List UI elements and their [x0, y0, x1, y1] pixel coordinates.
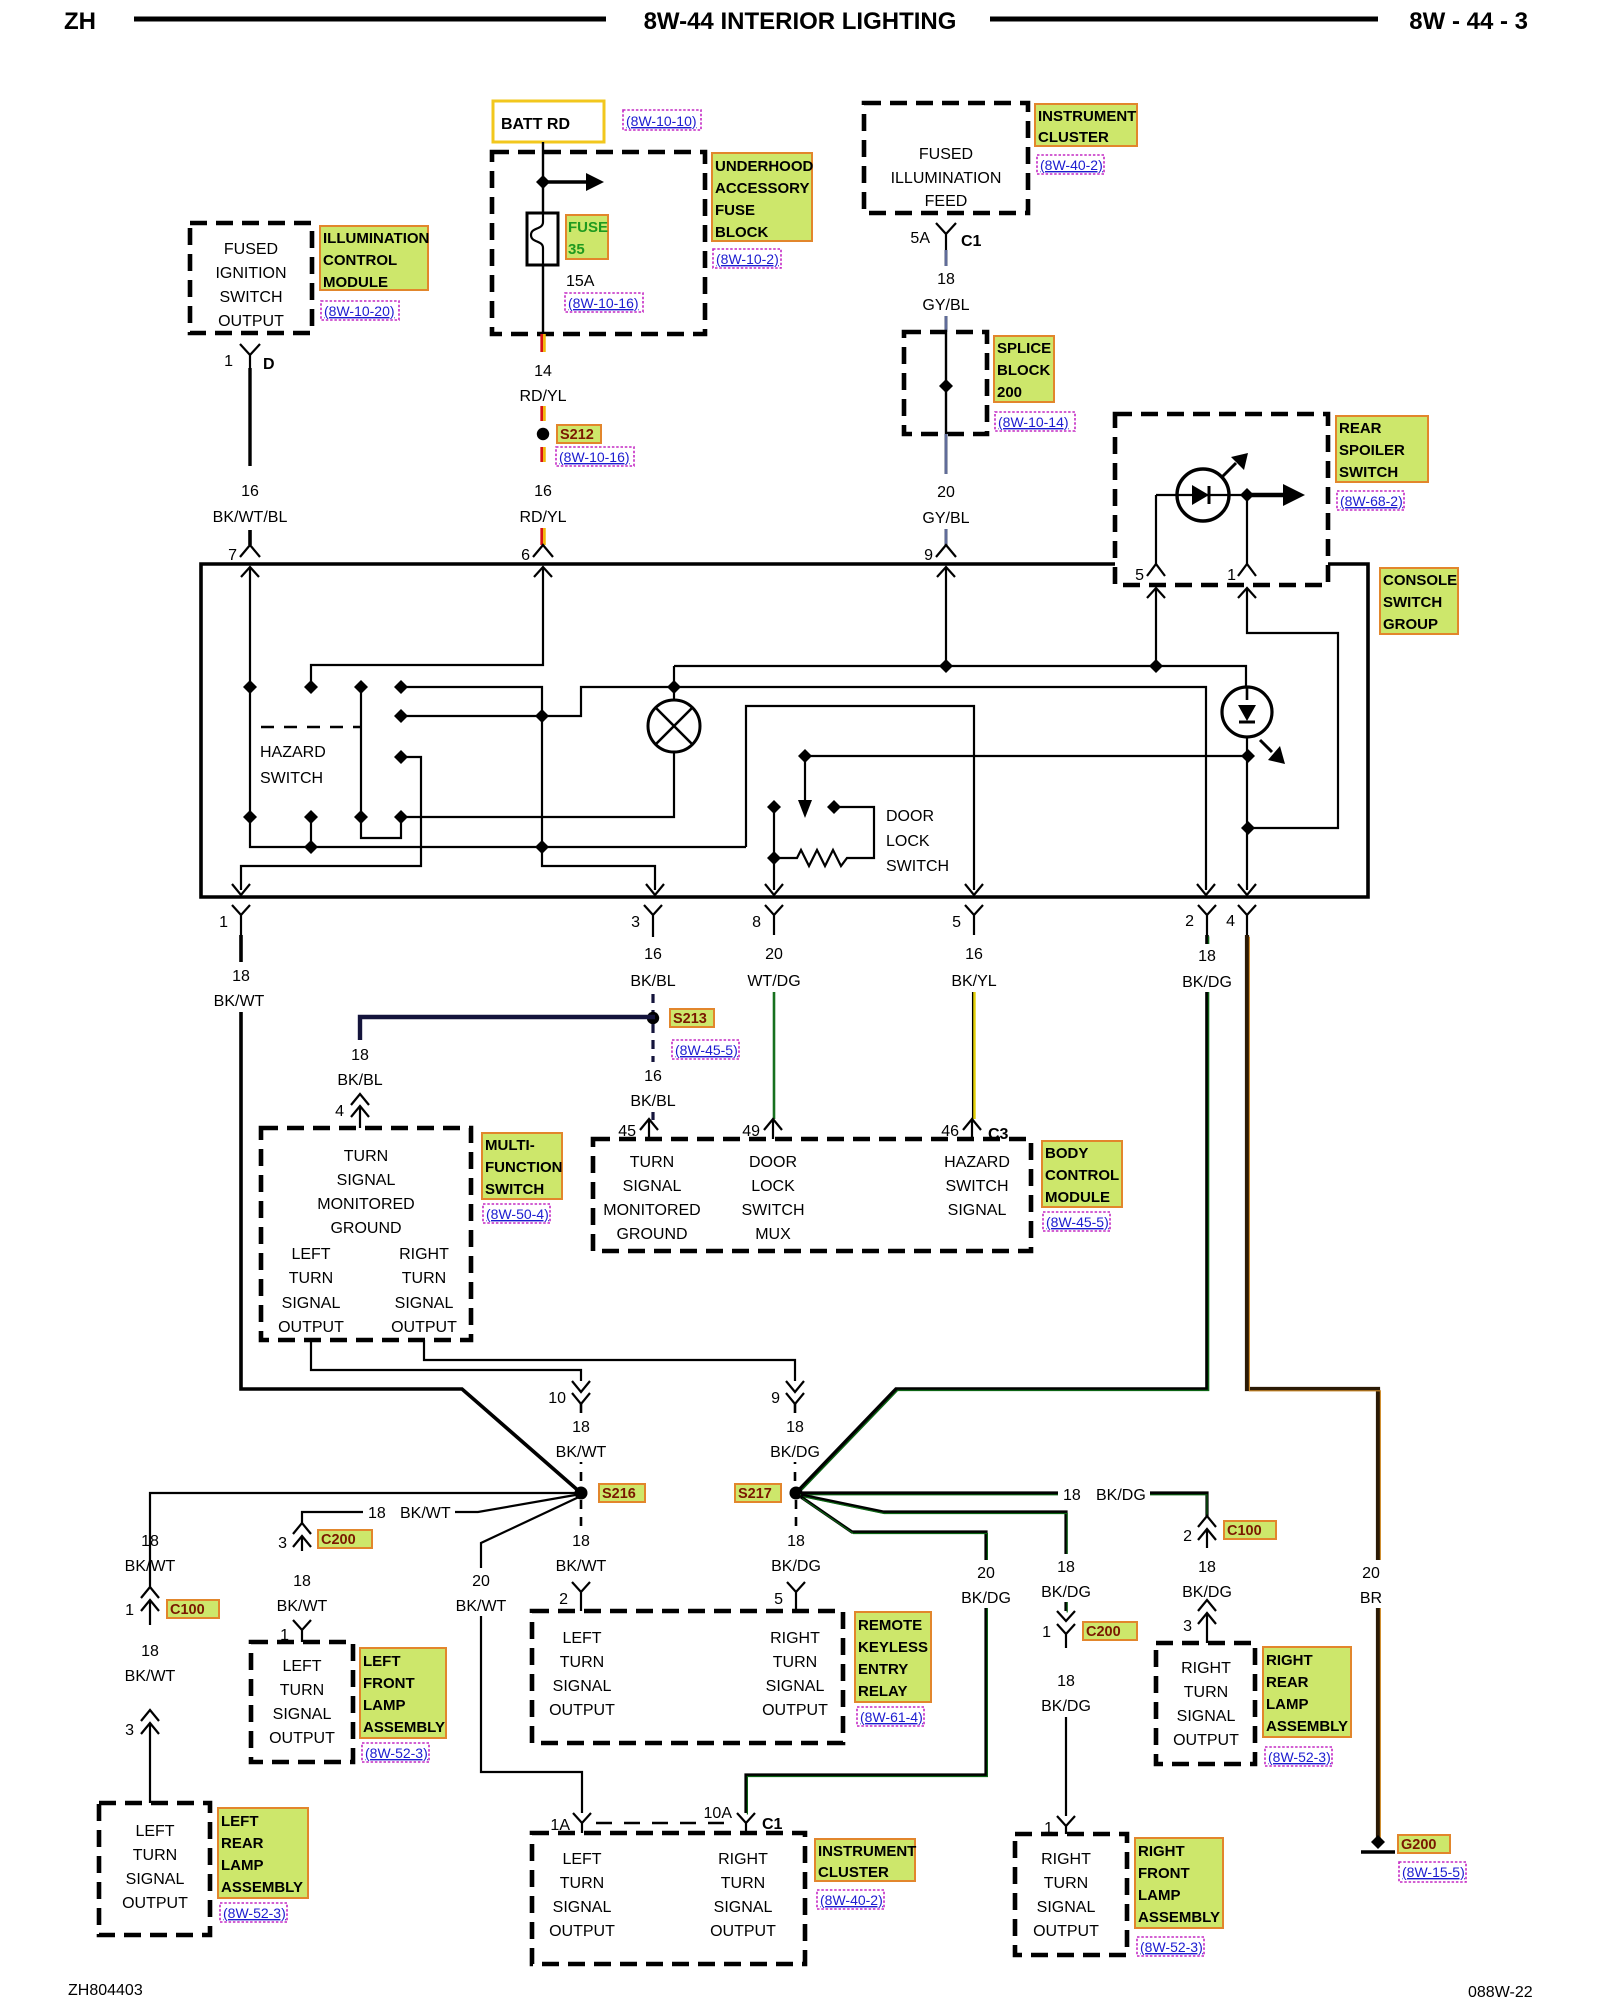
- svg-text:1: 1: [224, 353, 233, 370]
- svg-text:18: 18: [1057, 1673, 1075, 1690]
- exit arrow pin 1: [232, 884, 250, 895]
- svg-text:SWITCH: SWITCH: [1339, 464, 1398, 481]
- link 8W-15-5: [1399, 1862, 1466, 1882]
- svg-text:LOCK: LOCK: [886, 833, 930, 850]
- svg-text:(8W-10-14): (8W-10-14): [998, 414, 1069, 430]
- svg-text:TURN: TURN: [630, 1154, 674, 1171]
- wire 20 BR pin4: [1247, 935, 1378, 1838]
- connector pin 1 below console: [232, 905, 250, 935]
- svg-text:5: 5: [774, 1591, 783, 1608]
- keyless relay box: [532, 1611, 843, 1743]
- svg-text:9: 9: [771, 1390, 780, 1407]
- svg-text:TURN: TURN: [773, 1654, 817, 1671]
- svg-text:LEFT: LEFT: [562, 1851, 601, 1868]
- svg-text:GY/BL: GY/BL: [922, 510, 969, 527]
- svg-text:TURN: TURN: [560, 1654, 604, 1671]
- svg-text:3: 3: [1183, 1618, 1192, 1635]
- svg-text:RIGHT: RIGHT: [399, 1246, 449, 1263]
- wire 20 GY/BL: [944, 434, 948, 474]
- svg-text:RIGHT: RIGHT: [1041, 1851, 1091, 1868]
- connector pin 5 below console: [965, 905, 983, 935]
- svg-text:10A: 10A: [704, 1805, 733, 1822]
- fused ignition switch output box: [190, 223, 312, 333]
- hazard switch contact node row A pin6: [304, 680, 318, 694]
- connector pin 5: [1147, 564, 1165, 576]
- svg-text:1: 1: [1227, 567, 1236, 584]
- svg-text:7: 7: [228, 547, 237, 564]
- connector pin 3 below console: [644, 905, 662, 937]
- exit arrow pin 5: [965, 884, 983, 895]
- svg-text:BK/WT: BK/WT: [556, 1444, 607, 1461]
- svg-text:C200: C200: [1086, 1624, 1121, 1640]
- svg-text:LEFT: LEFT: [291, 1246, 330, 1263]
- label MULTI-FUNCTION SWITCH: [482, 1133, 562, 1199]
- TOPLEFT: [190, 223, 429, 564]
- connector 2 keyless: [572, 1582, 590, 1611]
- svg-text:TURN: TURN: [402, 1270, 446, 1287]
- wire door lock mux: [805, 755, 1248, 757]
- svg-text:ENTRY: ENTRY: [858, 1661, 908, 1678]
- svg-text:GROUND: GROUND: [616, 1226, 687, 1243]
- svg-text:088W-22: 088W-22: [1468, 1984, 1533, 2000]
- svg-text:BK/DG: BK/DG: [1096, 1487, 1146, 1504]
- right front lamp box: [1015, 1834, 1127, 1955]
- svg-text:16: 16: [644, 946, 662, 963]
- svg-text:ZH: ZH: [64, 8, 96, 35]
- svg-text:18: 18: [937, 271, 955, 288]
- svg-text:(8W-50-4): (8W-50-4): [486, 1206, 549, 1222]
- svg-text:LAMP: LAMP: [1266, 1696, 1309, 1713]
- svg-text:GROUND: GROUND: [330, 1220, 401, 1237]
- svg-text:ASSEMBLY: ASSEMBLY: [363, 1719, 445, 1736]
- door lock switch contacts: [774, 807, 874, 890]
- svg-text:MODULE: MODULE: [1045, 1189, 1110, 1206]
- svg-text:ZH804403: ZH804403: [68, 1982, 143, 1999]
- link 8W-10-2: [713, 249, 781, 268]
- svg-text:18: 18: [1057, 1559, 1075, 1576]
- link 8W-10-16: [565, 293, 643, 312]
- wire pin9: [945, 567, 947, 666]
- svg-text:20: 20: [472, 1573, 490, 1590]
- svg-text:SIGNAL: SIGNAL: [766, 1678, 825, 1695]
- wire S217 to cluster 10A: [746, 1497, 986, 1813]
- svg-text:SIGNAL: SIGNAL: [948, 1202, 1007, 1219]
- entry arrow pin 6: [534, 567, 552, 577]
- svg-text:(8W-52-3): (8W-52-3): [1268, 1749, 1331, 1765]
- console LED arrow: [1260, 740, 1272, 752]
- LED arrow: [1222, 463, 1236, 477]
- svg-text:RD/YL: RD/YL: [519, 509, 566, 526]
- svg-text:8W-44 INTERIOR LIGHTING: 8W-44 INTERIOR LIGHTING: [644, 8, 957, 35]
- svg-text:SWITCH: SWITCH: [260, 770, 323, 787]
- svg-text:5A: 5A: [910, 230, 930, 247]
- junction spoiler LED to output arrow: [1240, 488, 1254, 502]
- wire L2 pin2 net: [401, 687, 1206, 890]
- svg-text:OUTPUT: OUTPUT: [1173, 1732, 1239, 1749]
- svg-text:SIGNAL: SIGNAL: [395, 1295, 454, 1312]
- svg-text:(8W-10-20): (8W-10-20): [324, 303, 395, 319]
- svg-text:SIGNAL: SIGNAL: [273, 1706, 332, 1723]
- svg-text:BK/BL: BK/BL: [630, 1093, 675, 1110]
- svg-text:D: D: [263, 356, 275, 373]
- connector 1 left front: [293, 1620, 311, 1642]
- connector pin 8 below console: [765, 905, 783, 935]
- svg-text:TURN: TURN: [1184, 1684, 1228, 1701]
- wire 16 BK/WT/BL: [248, 368, 251, 466]
- svg-text:OUTPUT: OUTPUT: [391, 1319, 457, 1336]
- svg-text:SWITCH: SWITCH: [886, 858, 949, 875]
- svg-text:BK/WT: BK/WT: [400, 1505, 451, 1522]
- door lock switch right contact: [827, 800, 841, 814]
- hazard switch contact node row B stub: [304, 810, 318, 824]
- connector pin 2 below console: [1198, 905, 1216, 935]
- hazard switch contact node row B pole: [354, 810, 368, 824]
- svg-text:SIGNAL: SIGNAL: [282, 1295, 341, 1312]
- connector C1 dashes: [596, 1822, 732, 1824]
- svg-text:HAZARD: HAZARD: [260, 744, 326, 761]
- C200 connector right: [1057, 1611, 1075, 1648]
- svg-text:18: 18: [1198, 1559, 1216, 1576]
- svg-text:OUTPUT: OUTPUT: [549, 1702, 615, 1719]
- svg-text:C100: C100: [1227, 1523, 1262, 1539]
- svg-text:SIGNAL: SIGNAL: [1037, 1899, 1096, 1916]
- wire pin1 net: [241, 757, 421, 890]
- link 8W-10-14: [995, 412, 1075, 431]
- svg-text:TURN: TURN: [1044, 1875, 1088, 1892]
- wire S217 right to C100-2: [800, 1493, 1207, 1518]
- svg-text:REMOTE: REMOTE: [858, 1617, 922, 1634]
- svg-text:LEFT: LEFT: [221, 1813, 259, 1830]
- svg-text:TURN: TURN: [721, 1875, 765, 1892]
- junction y847 bus x pin3 wire: [535, 840, 549, 854]
- junction spoiler pin1 loop at LED cathode: [1241, 821, 1255, 835]
- label UNDERHOOD ACCESSORY FUSE BLOCK: [712, 153, 812, 241]
- hazard switch contact node row B pin7: [243, 810, 257, 824]
- svg-text:S213: S213: [673, 1011, 707, 1027]
- svg-text:(8W-52-3): (8W-52-3): [365, 1745, 428, 1761]
- connector pin 7 into console: [248, 530, 252, 545]
- svg-text:LEFT: LEFT: [135, 1823, 174, 1840]
- svg-text:200: 200: [997, 384, 1022, 401]
- svg-text:REAR: REAR: [1339, 420, 1382, 437]
- svg-text:20: 20: [977, 1565, 995, 1582]
- junction door lock wiper on mux line: [798, 749, 812, 763]
- connector 10: [572, 1381, 590, 1404]
- svg-text:(8W-61-4): (8W-61-4): [860, 1709, 923, 1725]
- svg-text:1: 1: [125, 1602, 134, 1619]
- hazard switch contact node row B out: [394, 810, 408, 824]
- console switch group box: [201, 564, 1368, 897]
- svg-text:OUTPUT: OUTPUT: [1033, 1923, 1099, 1940]
- label CONSOLE SWITCH GROUP: [1380, 568, 1458, 634]
- wire fuse to box edge: [542, 265, 544, 334]
- svg-text:TURN: TURN: [133, 1847, 177, 1864]
- svg-text:16: 16: [644, 1068, 662, 1085]
- wire S217 down to 5: [795, 1500, 798, 1576]
- hazard switch contact node row A pole: [354, 680, 368, 694]
- svg-text:20: 20: [1362, 1565, 1380, 1582]
- svg-text:C100: C100: [170, 1602, 205, 1618]
- LED spoiler switch indicator: [1177, 469, 1229, 521]
- svg-text:18: 18: [1198, 948, 1216, 965]
- svg-text:UNDERHOOD: UNDERHOOD: [715, 158, 814, 175]
- wire spoiler1 drop: [1247, 588, 1338, 828]
- wire top bus to LED: [674, 666, 1246, 687]
- wire 18 BK/WT to S216: [580, 1404, 583, 1486]
- svg-text:14: 14: [534, 363, 552, 380]
- resistor door lock switch: [774, 850, 850, 866]
- connector pin 1: [1238, 564, 1256, 576]
- ground G200: [1371, 1835, 1385, 1849]
- svg-text:BATT RD: BATT RD: [501, 116, 570, 133]
- svg-text:16: 16: [965, 946, 983, 963]
- junction y847 bus x hazard stub: [304, 840, 318, 854]
- svg-text:OUTPUT: OUTPUT: [710, 1923, 776, 1940]
- svg-text:18: 18: [232, 968, 250, 985]
- svg-text:BK/DG: BK/DG: [1041, 1584, 1091, 1601]
- svg-text:S216: S216: [602, 1486, 636, 1502]
- svg-text:RIGHT: RIGHT: [718, 1851, 768, 1868]
- junction mux line at LED cathode: [1241, 749, 1255, 763]
- svg-text:OUTPUT: OUTPUT: [269, 1730, 335, 1747]
- svg-text:ILLUMINATION: ILLUMINATION: [891, 170, 1002, 187]
- svg-text:BK/WT: BK/WT: [456, 1598, 507, 1615]
- header rule left: [134, 17, 606, 22]
- svg-text:RIGHT: RIGHT: [1181, 1660, 1231, 1677]
- svg-text:BK/DG: BK/DG: [1182, 974, 1232, 991]
- svg-text:BK/WT: BK/WT: [125, 1668, 176, 1685]
- svg-text:MULTI-: MULTI-: [485, 1137, 535, 1154]
- svg-text:BLOCK: BLOCK: [997, 362, 1050, 379]
- label BODY CONTROL MODULE: [1042, 1141, 1122, 1207]
- hazard switch contact node pin1 feed: [394, 750, 408, 764]
- CONSOLE: [201, 564, 1458, 897]
- wire 18 BK/DG to S217: [794, 1404, 797, 1486]
- svg-text:MODULE: MODULE: [323, 274, 388, 291]
- splice junction inside splice block 200: [939, 379, 953, 393]
- label RIGHT REAR LAMP ASSEMBLY: [1263, 1647, 1351, 1737]
- svg-text:CONTROL: CONTROL: [1045, 1167, 1119, 1184]
- wire pin5 side: [1155, 495, 1157, 564]
- connector 5 keyless: [787, 1582, 805, 1611]
- TOPRIGHT: [864, 103, 1137, 564]
- C200 connector left: [293, 1523, 311, 1551]
- svg-text:OUTPUT: OUTPUT: [762, 1702, 828, 1719]
- svg-text:LAMP: LAMP: [1138, 1887, 1181, 1904]
- wire LED cathode to pin4: [1246, 737, 1248, 890]
- entry arrow pin 7: [241, 567, 259, 577]
- wire pin1 side: [1246, 495, 1248, 564]
- svg-text:SIGNAL: SIGNAL: [623, 1178, 682, 1195]
- FUSEBLOCK: [492, 101, 814, 564]
- svg-text:SWITCH: SWITCH: [945, 1178, 1008, 1195]
- svg-text:20: 20: [937, 484, 955, 501]
- wire 20 BR labels: [1350, 1560, 1394, 1608]
- svg-text:8W - 44 - 3: 8W - 44 - 3: [1409, 8, 1528, 35]
- svg-text:RELAY: RELAY: [858, 1683, 907, 1700]
- body control module box: [593, 1139, 1031, 1251]
- svg-text:MONITORED: MONITORED: [317, 1196, 414, 1213]
- svg-text:CLUSTER: CLUSTER: [818, 1864, 889, 1881]
- svg-text:C200: C200: [321, 1532, 356, 1548]
- hazard switch contact node L2: [394, 709, 408, 723]
- underhood accessory fuse block box: [492, 152, 705, 334]
- svg-text:ASSEMBLY: ASSEMBLY: [221, 1879, 303, 1896]
- instrument cluster box bottom: [532, 1833, 805, 1964]
- svg-text:G200: G200: [1401, 1837, 1436, 1853]
- svg-text:LEFT: LEFT: [282, 1658, 321, 1675]
- svg-text:18: 18: [293, 1573, 311, 1590]
- svg-text:LEFT: LEFT: [562, 1630, 601, 1647]
- C100 connector right: [1198, 1516, 1216, 1548]
- svg-text:18: 18: [787, 1533, 805, 1550]
- exit arrow pin 3: [646, 884, 664, 895]
- svg-text:4: 4: [335, 1103, 344, 1120]
- svg-text:MONITORED: MONITORED: [603, 1202, 700, 1219]
- label FUSE 35: [566, 215, 608, 259]
- junction L2 x pin3 wire: [535, 709, 549, 723]
- svg-text:2: 2: [559, 1591, 568, 1608]
- label INSTRUMENT CLUSTER: [1035, 104, 1137, 146]
- svg-text:(8W-10-16): (8W-10-16): [568, 295, 639, 311]
- wire S216 left to C100: [150, 1493, 581, 1587]
- svg-text:5: 5: [952, 914, 961, 931]
- svg-text:(8W-40-2): (8W-40-2): [820, 1892, 883, 1908]
- link 8W-40-2: [817, 1890, 884, 1909]
- svg-text:C1: C1: [961, 233, 982, 250]
- splice block 200 box: [904, 332, 987, 434]
- svg-text:BK/BL: BK/BL: [630, 973, 675, 990]
- wire 18 GY/BL: [944, 250, 948, 332]
- svg-text:INSTRUMENT: INSTRUMENT: [818, 1843, 916, 1860]
- exit arrow pin 2: [1197, 884, 1215, 895]
- svg-text:TURN: TURN: [289, 1270, 333, 1287]
- wire hazard feed riser: [746, 706, 974, 890]
- splice S213: [647, 1012, 659, 1024]
- svg-text:18: 18: [141, 1643, 159, 1660]
- svg-text:CLUSTER: CLUSTER: [1038, 129, 1109, 146]
- svg-text:DOOR: DOOR: [749, 1154, 797, 1171]
- svg-text:15A: 15A: [566, 273, 595, 290]
- svg-text:LOCK: LOCK: [751, 1178, 795, 1195]
- wire through LED: [1156, 494, 1283, 496]
- link 8W-52-3: [362, 1743, 429, 1762]
- left front lamp box: [251, 1642, 353, 1762]
- svg-text:INSTRUMENT: INSTRUMENT: [1038, 108, 1136, 125]
- svg-text:SWITCH: SWITCH: [219, 289, 282, 306]
- connector pin 4 below console: [1238, 905, 1256, 935]
- junction lamp vertical x L2: [667, 680, 681, 694]
- svg-text:S217: S217: [738, 1486, 772, 1502]
- svg-text:CONSOLE: CONSOLE: [1383, 572, 1457, 589]
- exit arrow pin 8: [765, 884, 783, 895]
- connector 46 C3 BCM: [963, 1119, 981, 1139]
- svg-text:SIGNAL: SIGNAL: [337, 1172, 396, 1189]
- svg-text:LAMP: LAMP: [363, 1697, 406, 1714]
- svg-text:20: 20: [765, 946, 783, 963]
- wire 20 BK/WT labels: [454, 1568, 508, 1616]
- link 8W-45-5: [1043, 1212, 1110, 1231]
- svg-text:SIGNAL: SIGNAL: [553, 1678, 612, 1695]
- svg-text:RIGHT: RIGHT: [770, 1630, 820, 1647]
- fused illumination feed box: [864, 103, 1028, 213]
- svg-text:(8W-45-5): (8W-45-5): [1046, 1214, 1109, 1230]
- svg-text:OUTPUT: OUTPUT: [218, 313, 284, 330]
- junction pin9 on y666 bus: [939, 659, 953, 673]
- wire 18 BK/WT trunk: [241, 935, 581, 1493]
- junction resistor R1 left terminal: [767, 851, 781, 865]
- svg-text:BK/BL: BK/BL: [337, 1072, 382, 1089]
- svg-text:FUSED: FUSED: [224, 241, 278, 258]
- svg-text:BK/DG: BK/DG: [1041, 1698, 1091, 1715]
- svg-text:4: 4: [1226, 913, 1235, 930]
- label ILLUMINATION CONTROL MODULE: [320, 226, 428, 290]
- wire right turn output: [424, 1340, 795, 1381]
- svg-text:SWITCH: SWITCH: [485, 1181, 544, 1198]
- link 8W-50-4: [483, 1204, 550, 1223]
- output arrow: [1247, 493, 1285, 498]
- node BATT RD: [493, 101, 604, 142]
- svg-text:OUTPUT: OUTPUT: [278, 1319, 344, 1336]
- label RIGHT FRONT LAMP ASSEMBLY: [1135, 1838, 1223, 1928]
- svg-text:BK/YL: BK/YL: [951, 973, 996, 990]
- svg-text:3: 3: [278, 1535, 287, 1552]
- connector 45 BCM: [640, 1119, 658, 1139]
- svg-text:IGNITION: IGNITION: [215, 265, 286, 282]
- link 8W-52-3: [220, 1903, 287, 1922]
- hazard pole vertical: [361, 687, 401, 838]
- svg-text:10: 10: [548, 1390, 566, 1407]
- connector pin 9 into console: [936, 545, 956, 557]
- wire S216 to C200: [302, 1494, 581, 1523]
- connector 49 BCM: [764, 1119, 782, 1139]
- link 8W-45-5: [672, 1040, 739, 1059]
- svg-text:ACCESSORY: ACCESSORY: [715, 180, 809, 197]
- svg-text:SIGNAL: SIGNAL: [1177, 1708, 1236, 1725]
- junction fuse F35 battery feed tap: [536, 175, 550, 189]
- header rule right: [990, 17, 1378, 22]
- svg-text:BODY: BODY: [1045, 1145, 1088, 1162]
- svg-text:18: 18: [572, 1419, 590, 1436]
- door lock wiper arrow: [804, 756, 806, 806]
- svg-text:18: 18: [141, 1533, 159, 1550]
- svg-text:2: 2: [1183, 1528, 1192, 1545]
- hazard contact stub: [310, 817, 312, 847]
- link 8W-10-20: [321, 301, 399, 320]
- label INSTRUMENT CLUSTER: [815, 1839, 915, 1881]
- link 8W-52-3: [1265, 1747, 1332, 1766]
- svg-text:REAR: REAR: [221, 1835, 264, 1852]
- entry arrow spoiler pin1: [1238, 588, 1256, 598]
- label REMOTE KEYLESS ENTRY RELAY: [855, 1612, 931, 1702]
- junction spoiler pin5 drop on y666 bus: [1149, 659, 1163, 673]
- svg-text:LEFT: LEFT: [363, 1653, 401, 1670]
- svg-text:35: 35: [568, 241, 585, 258]
- svg-text:FEED: FEED: [925, 193, 968, 210]
- svg-text:ILLUMINATION: ILLUMINATION: [323, 230, 429, 247]
- splice S216: [575, 1487, 588, 1500]
- svg-text:BLOCK: BLOCK: [715, 224, 768, 241]
- svg-text:KEYLESS: KEYLESS: [858, 1639, 928, 1656]
- svg-text:9: 9: [924, 547, 933, 564]
- wire S213 branch to multifunction: [360, 1017, 655, 1040]
- svg-text:(8W-45-5): (8W-45-5): [675, 1042, 738, 1058]
- svg-text:FUNCTION: FUNCTION: [485, 1159, 563, 1176]
- link 8W-10-16: [556, 447, 634, 466]
- svg-text:(8W-10-2): (8W-10-2): [716, 251, 779, 267]
- label REAR SPOILER SWITCH: [1336, 416, 1428, 482]
- svg-text:LAMP: LAMP: [221, 1857, 264, 1874]
